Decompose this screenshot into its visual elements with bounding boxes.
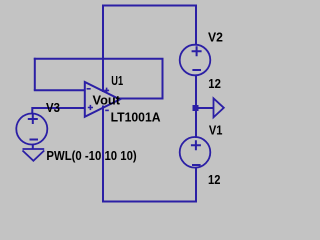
wire junction to port	[198, 107, 214, 109]
wire V3 bottom stub	[32, 144, 34, 149]
wire U1 V- pin to bottom rail	[102, 106, 104, 203]
wire feedback top	[34, 58, 164, 60]
wire bottom rail	[102, 201, 197, 203]
port flag	[214, 98, 224, 117]
wire top rail	[103, 5, 196, 7]
wire left vertical to U1 V+ pin	[102, 5, 104, 93]
svg-text:V2: V2	[208, 30, 223, 45]
svg-text:PWL(0 -10 10 10): PWL(0 -10 10 10)	[46, 148, 136, 163]
svg-text:V1: V1	[209, 122, 223, 137]
ground	[23, 149, 45, 161]
wire V1 bottom to bottom rail	[195, 167, 197, 203]
wire to inverting input	[34, 89, 85, 91]
wire feedback left vertical	[34, 58, 36, 91]
non-inverting input marker	[88, 105, 93, 110]
wire op-amp output	[120, 98, 164, 100]
svg-text:LT1001A: LT1001A	[111, 110, 161, 125]
svg-text:Vout: Vout	[93, 92, 121, 107]
V- pin marker	[105, 109, 109, 111]
svg-text:12: 12	[208, 172, 220, 187]
op-amp U1	[85, 82, 120, 117]
svg-text:12: 12	[208, 76, 221, 91]
V+ pin marker	[104, 88, 109, 94]
wire V2 bottom to junction	[195, 75, 197, 108]
inverting input marker	[87, 88, 91, 90]
junction node	[193, 105, 199, 111]
voltage source V2	[180, 45, 211, 76]
voltage source V3	[16, 114, 47, 145]
voltage source V1	[180, 137, 211, 168]
wire V3 to non-inverting input	[32, 107, 85, 109]
svg-text:U1: U1	[111, 73, 123, 88]
wire junction to V1 top	[195, 108, 197, 138]
wire V3 top stub	[31, 107, 33, 114]
wire right vertical to V2 top	[195, 5, 197, 46]
svg-text:V3: V3	[46, 100, 60, 115]
wire feedback right vertical	[162, 59, 164, 100]
